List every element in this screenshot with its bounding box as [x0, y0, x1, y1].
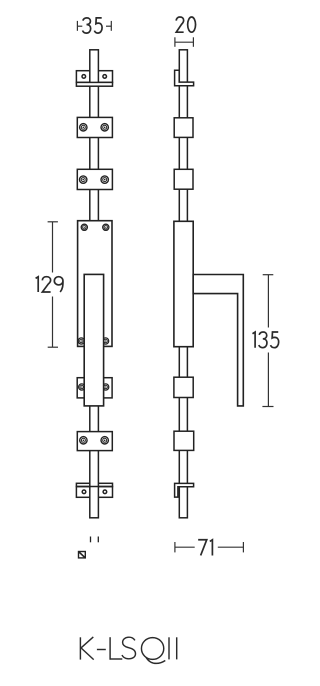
front view: top plate P1 box	[76, 71, 112, 83]
dimension 35 left tick	[76, 21, 78, 31]
letter L	[109, 637, 111, 659]
front view: guide plate P5	[77, 432, 112, 451]
dimension 20 left tick	[174, 37, 176, 47]
front view: rod	[90, 50, 99, 518]
P6 screw right	[103, 490, 107, 494]
product name K-LSQII	[80, 637, 176, 664]
dimension 35 right tick	[110, 21, 112, 31]
dimension 135 top tick	[263, 274, 274, 276]
dimension 129 line lower segment	[52, 297, 54, 348]
front view: guide plate P4	[77, 378, 112, 398]
dimension 135 line upper segment	[267, 275, 269, 328]
front view: bottom plate P6 box	[76, 487, 112, 498]
dimension 129 bottom tick	[48, 346, 58, 348]
side view: guide block B3	[174, 377, 193, 397]
P6 screw left	[82, 490, 86, 494]
dimension 71 right segment	[218, 546, 244, 548]
dimension 129 line upper segment	[52, 222, 54, 273]
case screw bottom-right	[103, 338, 109, 344]
P4 screw right	[103, 384, 109, 390]
letter I	[176, 637, 178, 659]
front view: guide plate P2	[77, 117, 112, 137]
case screw top-left	[81, 224, 87, 230]
letter Q	[141, 638, 163, 660]
P6 strip bottom line (continuous over rod)	[76, 486, 112, 488]
P2 screw left	[80, 124, 87, 131]
dimension 71 right tick	[242, 542, 244, 552]
left view small tick mark b	[97, 537, 99, 543]
side view: top hook keeper	[175, 70, 194, 86]
dimension 20 line	[175, 41, 194, 43]
side view: rod	[179, 50, 187, 518]
dimension 71 label	[198, 540, 212, 556]
dimension 20 label	[176, 17, 195, 32]
case screw bottom-left	[78, 338, 84, 344]
P5 screw left	[80, 437, 87, 444]
letter I	[168, 637, 170, 659]
dimension 129 top tick	[48, 221, 58, 223]
dimension 71 left segment	[175, 546, 195, 548]
side view: guide block B4	[174, 431, 194, 450]
front view: top plate P1 strip	[76, 82, 112, 86]
dimension 129 label	[36, 277, 63, 292]
dimension 20 right tick	[192, 37, 194, 47]
front view: handle slider bar	[84, 274, 103, 406]
dimension 135 bottom tick	[262, 406, 273, 408]
P5 screw right	[101, 437, 108, 444]
P3 screw left	[80, 176, 87, 183]
P1 screw left	[82, 75, 86, 79]
letter S	[122, 637, 136, 659]
side view: handle lever	[193, 275, 243, 406]
dimension 135 line lower segment	[267, 353, 269, 407]
P3 screw right	[101, 176, 108, 183]
front view: guide plate P3	[77, 169, 112, 189]
dimension 35 right stub	[106, 25, 111, 27]
P1 screw right	[103, 75, 107, 79]
front view: bottom plate P6 strip	[76, 483, 112, 486]
side view: guide block B2	[174, 169, 193, 189]
side view: lock case	[174, 221, 193, 346]
left view small tick mark a	[90, 537, 92, 543]
side view: bottom hook keeper	[175, 483, 194, 497]
P4 screw left	[79, 384, 85, 390]
case screw top-right	[103, 224, 109, 230]
dimension 35 label	[83, 18, 103, 33]
letter K	[79, 637, 81, 659]
front view: lock case backplate	[78, 221, 112, 347]
side view: guide block B1	[174, 118, 193, 138]
dimension 35 left stub	[77, 25, 82, 27]
legend square with diagonal	[79, 552, 86, 558]
hyphen	[97, 649, 106, 651]
dimension 71 left tick	[174, 542, 176, 552]
P2 screw right	[101, 124, 108, 131]
dimension 135 label	[253, 332, 279, 348]
